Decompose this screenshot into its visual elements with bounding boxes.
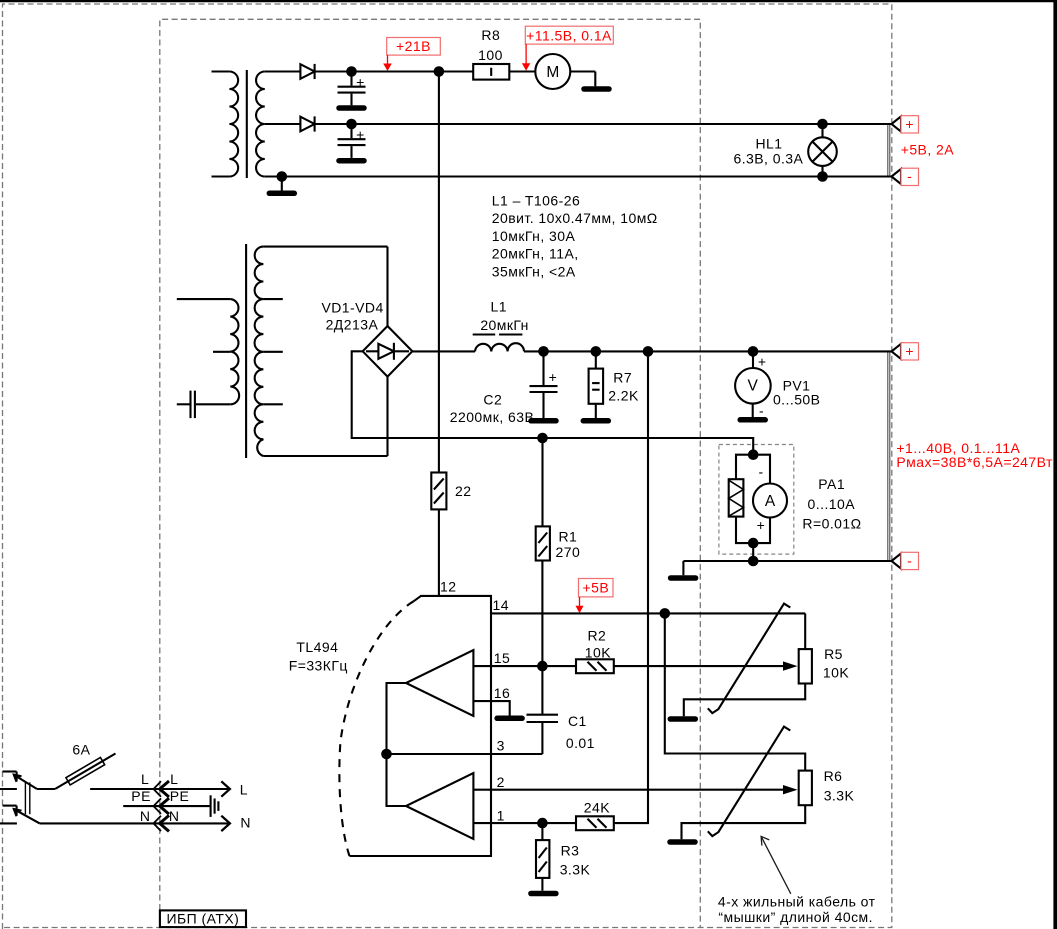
svg-text:0.01: 0.01 <box>566 735 595 751</box>
svg-text:2200мк, 63В: 2200мк, 63В <box>450 409 535 425</box>
svg-text:PE: PE <box>131 788 151 804</box>
svg-text:TL494: TL494 <box>296 639 338 655</box>
svg-text:3.3K: 3.3K <box>560 861 591 877</box>
svg-text:+5В, 2А: +5В, 2А <box>901 141 955 157</box>
svg-text:10мкГн, 30А: 10мкГн, 30А <box>492 228 576 244</box>
svg-text:ИБП (АТХ): ИБП (АТХ) <box>167 910 240 926</box>
svg-text:L1 – T106-26: L1 – T106-26 <box>492 192 580 208</box>
svg-text:2Д213А: 2Д213А <box>326 317 379 333</box>
svg-text:22: 22 <box>455 483 471 499</box>
svg-text:+: + <box>905 343 914 359</box>
svg-text:20мкГн: 20мкГн <box>480 317 529 333</box>
svg-text:L: L <box>240 782 248 798</box>
svg-text:R7: R7 <box>613 370 632 386</box>
svg-text:-: - <box>759 403 764 419</box>
svg-text:+: + <box>356 74 365 90</box>
svg-text:L: L <box>170 771 178 787</box>
svg-text:N: N <box>169 808 180 824</box>
svg-text:2.2K: 2.2K <box>608 388 639 404</box>
svg-text:6А: 6А <box>72 742 90 758</box>
svg-text:VD1-VD4: VD1-VD4 <box>321 300 383 316</box>
svg-text:+: + <box>905 116 914 132</box>
svg-text:N: N <box>140 808 151 824</box>
svg-text:C1: C1 <box>568 713 587 729</box>
svg-text:+: + <box>757 517 766 533</box>
svg-text:R1: R1 <box>559 528 578 544</box>
svg-text:12: 12 <box>440 579 456 595</box>
svg-text:R8: R8 <box>481 27 500 43</box>
svg-text:15: 15 <box>494 650 510 666</box>
svg-text:6.3В, 0.3А: 6.3В, 0.3А <box>733 150 803 166</box>
svg-text:3.3K: 3.3K <box>824 787 855 803</box>
svg-text:0...10А: 0...10А <box>808 496 856 512</box>
svg-text:+: + <box>549 369 558 385</box>
svg-text:R=0.01Ω: R=0.01Ω <box>802 516 861 532</box>
svg-text:+11.5В, 0.1А: +11.5В, 0.1А <box>526 28 612 44</box>
svg-text:N: N <box>240 815 251 831</box>
svg-text:20мкГн, 11А,: 20мкГн, 11А, <box>492 246 579 262</box>
svg-text:R6: R6 <box>824 768 843 784</box>
svg-text:+: + <box>758 353 767 369</box>
svg-text:PE: PE <box>170 788 190 804</box>
svg-text:L1: L1 <box>491 298 507 314</box>
svg-text:100: 100 <box>478 47 503 63</box>
svg-text:4-х жильный кабель от: 4-х жильный кабель от <box>718 893 876 909</box>
svg-text:20вит. 10х0.47мм, 10мΩ: 20вит. 10х0.47мм, 10мΩ <box>492 210 658 226</box>
svg-text:16: 16 <box>494 685 510 701</box>
svg-text:+21В: +21В <box>396 38 431 54</box>
svg-text:R5: R5 <box>824 646 843 662</box>
svg-text:-: - <box>907 553 912 569</box>
svg-text:F=33КГц: F=33КГц <box>289 658 348 674</box>
svg-text:14: 14 <box>493 597 509 613</box>
svg-text:V: V <box>748 378 759 395</box>
svg-text:0...50В: 0...50В <box>773 392 821 408</box>
svg-text:-: - <box>907 168 912 184</box>
svg-text:+5В: +5В <box>582 580 609 596</box>
svg-text:24K: 24K <box>584 799 610 815</box>
svg-text:270: 270 <box>556 544 581 560</box>
svg-text:HL1: HL1 <box>755 135 782 151</box>
svg-text:A: A <box>765 493 776 510</box>
svg-text:Рмах=38В*6,5А=247Вт: Рмах=38В*6,5А=247Вт <box>896 454 1053 470</box>
svg-text:C2: C2 <box>483 391 502 407</box>
svg-text:1: 1 <box>497 807 505 823</box>
svg-text:10K: 10K <box>823 664 849 680</box>
svg-text:-: - <box>758 464 763 480</box>
svg-text:10K: 10K <box>585 644 611 660</box>
svg-text:R2: R2 <box>588 628 607 644</box>
svg-text:“мышки” длиной 40см.: “мышки” длиной 40см. <box>718 909 873 925</box>
svg-text:M: M <box>546 64 559 81</box>
svg-text:L: L <box>141 771 149 787</box>
svg-text:3: 3 <box>497 737 505 753</box>
svg-text:PA1: PA1 <box>818 476 845 492</box>
svg-text:35мкГн, <2А: 35мкГн, <2А <box>492 264 576 280</box>
svg-text:+: + <box>356 127 365 143</box>
svg-text:R3: R3 <box>561 843 580 859</box>
svg-text:2: 2 <box>497 774 505 790</box>
